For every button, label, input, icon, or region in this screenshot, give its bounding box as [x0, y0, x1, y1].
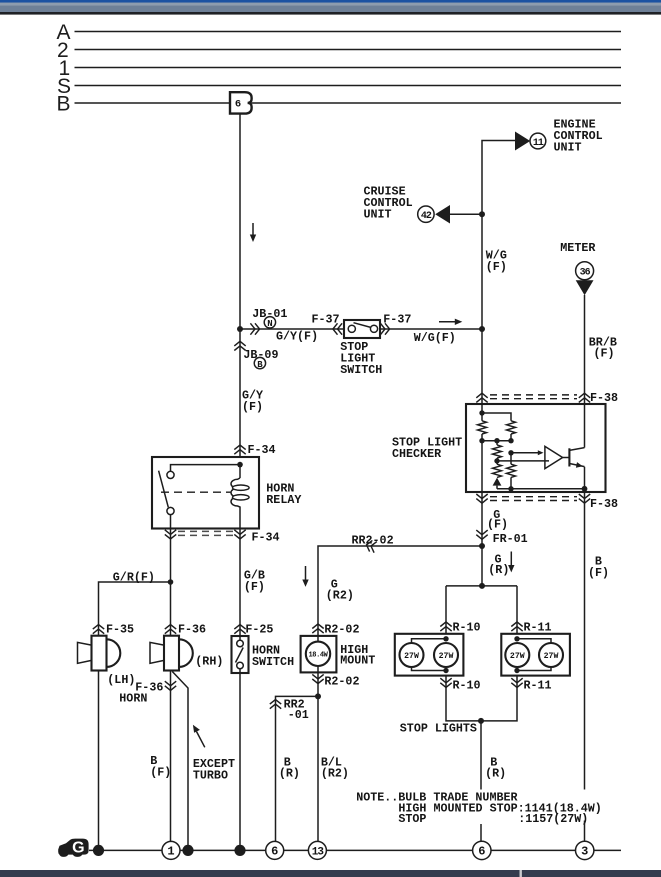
bus line 2 [75, 49, 622, 51]
ground pin circle 3 [576, 841, 594, 859]
wire stop light bottom rail [446, 676, 517, 721]
svg-text:G/R(F): G/R(F) [113, 570, 155, 584]
connector dashed pair F-38 upper [490, 395, 577, 399]
node RR2-01 junction [315, 693, 321, 699]
connector dashed pair F-34 [178, 531, 233, 535]
wire except-turbo branch diagonal [172, 672, 188, 851]
label G/R(F) [113, 570, 155, 584]
label R-10 upper [453, 621, 481, 635]
label G (F) [487, 508, 508, 532]
wire high mount ground [317, 672, 319, 842]
label W/G (F) [486, 249, 507, 275]
wire B F tail to circle 3 [584, 821, 586, 842]
connector chevron R-10 upper [440, 622, 451, 631]
label B (F) left [150, 754, 171, 780]
svg-text:(R2): (R2) [321, 766, 349, 780]
label G/B (F) [244, 569, 265, 595]
svg-text:B: B [257, 360, 263, 370]
bus line A [75, 31, 622, 33]
connector chevron F-37 right [380, 323, 389, 334]
ground pin circle 13 [308, 841, 326, 859]
svg-text:N: N [267, 319, 272, 329]
label JB-01 [252, 307, 287, 321]
horn RH [150, 636, 193, 671]
wire checker feed vertical [481, 329, 483, 404]
svg-text:HORN: HORN [119, 692, 147, 706]
svg-text:F-34: F-34 [248, 443, 276, 457]
label F-37 left [312, 313, 340, 327]
svg-text:(F): (F) [487, 517, 508, 531]
connector chevron R2-02 upper [312, 624, 323, 633]
flow arrow down on main wire [250, 223, 256, 242]
wire LH horn ground [98, 671, 100, 851]
connector chevron F-38 lower left [476, 494, 487, 503]
label BR/B (F) [589, 336, 617, 361]
node bottom rail right [582, 486, 588, 492]
label F-34 upper [248, 443, 276, 457]
wire RR2-01 branch [276, 696, 319, 842]
engine control unit arrow [515, 132, 530, 151]
node stop light ground [478, 718, 484, 724]
svg-text:27W: 27W [544, 652, 559, 661]
connector chevron R2-02 lower [312, 674, 323, 683]
stop light switch S1 [344, 320, 380, 338]
label CRUISE CONTROL UNIT [364, 185, 413, 222]
wire main vertical from box 6 [239, 114, 241, 457]
label HORN SWITCH [252, 644, 294, 670]
bus label 2 [57, 39, 69, 62]
svg-text:F-25: F-25 [245, 623, 273, 637]
wire horn switch ground [239, 673, 241, 850]
connector chevron F-25 [234, 625, 245, 634]
wire meter into collector [584, 404, 586, 448]
svg-text:F-37: F-37 [312, 313, 340, 327]
bottom banner bar [0, 870, 661, 877]
svg-text:(RH): (RH) [195, 655, 223, 669]
label HIGH MOUNT [340, 643, 375, 668]
wire stop light top rail [446, 585, 517, 587]
label G/Y(F) [276, 330, 318, 344]
comparator input line lower [497, 460, 549, 462]
label STOP LIGHT CHECKER [392, 436, 462, 462]
label F-38 lower [590, 497, 618, 511]
wire meter vertical BR/B [584, 295, 586, 404]
wire switch to W/G node [380, 328, 482, 330]
ground rail [89, 849, 621, 851]
cruise control unit arrow [435, 205, 450, 224]
svg-text:(R2): (R2) [326, 589, 354, 603]
label (RH) [195, 655, 223, 669]
svg-text:(F): (F) [242, 400, 263, 414]
bus line B left segment [75, 102, 231, 104]
node mid rail right [508, 438, 513, 443]
svg-text:STOP LIGHTS: STOP LIGHTS [400, 722, 477, 736]
connector chevron F-37 left [333, 323, 342, 334]
svg-text:F-35: F-35 [106, 623, 134, 637]
svg-text:27W: 27W [404, 652, 419, 661]
svg-text:(F): (F) [588, 566, 609, 580]
bulb 27W left-left [400, 643, 424, 667]
node relay coil top [237, 462, 243, 468]
svg-text:(R): (R) [488, 563, 509, 577]
label G/Y (F) [242, 388, 263, 414]
svg-text:(R): (R) [279, 766, 300, 780]
connector chevron R-10 lower [440, 678, 451, 687]
node stop light split [479, 583, 485, 589]
svg-text:SWITCH: SWITCH [340, 363, 382, 377]
connector chevron F-36 rh top [165, 625, 176, 634]
svg-text:R-10: R-10 [453, 678, 481, 692]
connector circle B [254, 357, 265, 369]
connector chevron F-38 upper left [476, 393, 487, 402]
bulb 27W left-right [434, 643, 458, 667]
label (LH) [107, 673, 135, 687]
svg-text:F-34: F-34 [252, 530, 280, 544]
flow arrow right [439, 319, 462, 325]
svg-text:(F): (F) [594, 347, 615, 361]
horn relay internal top wire [171, 465, 241, 472]
connector chevron F-34 lower right [234, 530, 245, 539]
svg-text:F-37: F-37 [383, 313, 411, 327]
node mid rail left [479, 438, 484, 443]
svg-text:F-38: F-38 [590, 391, 618, 405]
svg-text:F-36: F-36 [178, 623, 206, 637]
connector chevron F-38 upper right [579, 393, 590, 402]
svg-text:UNIT: UNIT [364, 208, 392, 222]
node G/R junction [168, 579, 174, 585]
label F-37 right [383, 313, 411, 327]
connector chevron F-34 lower left [165, 530, 176, 539]
resistor R-a [478, 421, 487, 434]
label B/L (R2) [321, 755, 349, 780]
connector chevron JB-01 [250, 323, 259, 334]
svg-text:R-10: R-10 [453, 621, 481, 635]
checker bottom rail [497, 488, 585, 490]
bus line S [75, 85, 622, 87]
svg-text:3: 3 [581, 845, 588, 859]
label EXCEPT TURBO [193, 757, 235, 783]
note text background [354, 790, 608, 825]
bus line B right segment [252, 102, 621, 104]
connector chevron F-38 lower right [579, 494, 590, 503]
svg-text:13: 13 [312, 847, 325, 859]
svg-text:42: 42 [421, 211, 432, 222]
wire W/G vertical (engine control feed) [482, 141, 515, 330]
comparator input line upper with arrow [511, 450, 544, 455]
svg-text:R-11: R-11 [524, 621, 552, 635]
node W/G junction [479, 326, 485, 332]
meter arrow down [576, 280, 594, 295]
svg-text:RELAY: RELAY [266, 493, 301, 507]
node ground LH horn [93, 845, 104, 856]
svg-text:1: 1 [167, 845, 174, 859]
label G (R) [488, 553, 509, 578]
label F-38 upper [590, 391, 618, 405]
node ground except turbo [182, 845, 193, 856]
connector chevron F-34 upper [234, 445, 245, 454]
wire relay switch output [170, 515, 172, 636]
label F-35 [106, 623, 134, 637]
svg-text:G/Y(F): G/Y(F) [276, 330, 318, 344]
horn relay linkage dashed [161, 491, 231, 493]
svg-text:(LH): (LH) [107, 673, 135, 687]
svg-text:6: 6 [235, 99, 241, 111]
stop light right box [501, 634, 570, 676]
connector chevron RR2-01 [270, 700, 281, 709]
checker left wire lower [481, 441, 483, 492]
connector circle N [264, 317, 275, 329]
svg-text:F-38: F-38 [590, 497, 618, 511]
wire right lamp branch [516, 586, 518, 634]
label RR2 -01 [284, 698, 309, 723]
node checker top [479, 410, 484, 415]
checker top rail [482, 413, 511, 421]
svg-text:18.4W: 18.4W [308, 651, 328, 659]
transistor Q1 [569, 448, 584, 468]
flow arrow down left of G R2 [302, 566, 308, 587]
label R2-02 upper [324, 623, 359, 637]
svg-text:(R): (R) [485, 766, 506, 780]
bulb 27W right-right [539, 643, 563, 667]
wire stop light ground drop [480, 721, 482, 842]
resistor R-e [507, 453, 516, 489]
svg-text:(F): (F) [244, 580, 265, 594]
svg-text:METER: METER [560, 241, 595, 255]
label F-36 lower [135, 680, 163, 694]
flow arrow down right of G R [508, 552, 514, 573]
checker mid rail [482, 434, 511, 441]
label B (R) center [485, 755, 506, 780]
connector chevron R-11 lower [511, 678, 522, 687]
wire coil output G/B [239, 529, 241, 637]
svg-text::1157(27W): :1157(27W) [518, 812, 588, 826]
label HORN RELAY [266, 482, 301, 508]
svg-text:(F): (F) [486, 260, 507, 274]
stop light left box [395, 634, 464, 676]
svg-text:27W: 27W [510, 652, 525, 661]
svg-text:STOP: STOP [398, 812, 426, 826]
wire RR2-02 branch horizontal [318, 546, 482, 636]
svg-text:R2-02: R2-02 [324, 623, 359, 637]
horn relay coil [231, 465, 249, 529]
note BULB TRADE NUMBER [356, 791, 602, 826]
label F-34 lower [252, 530, 280, 544]
horn LH [78, 636, 121, 671]
wire cruise control branch [450, 213, 482, 215]
svg-text:27W: 27W [439, 652, 454, 661]
label RR2-02 [352, 533, 394, 547]
label STOP LIGHT SWITCH [340, 340, 382, 377]
node bottom rail center [508, 486, 513, 491]
svg-text:-01: -01 [288, 708, 309, 722]
node mid rail center [494, 438, 499, 443]
wire checker outputs [482, 489, 585, 797]
resistor R-c [493, 441, 502, 461]
svg-text:R2-02: R2-02 [324, 674, 359, 688]
cruise control unit pin circle 42 [418, 206, 434, 222]
connector chevron F-36 lower [165, 681, 176, 690]
label F-36 top [178, 623, 206, 637]
stop light checker box U2 [466, 404, 606, 492]
node divider tap [494, 458, 499, 463]
label R-11 upper [524, 621, 552, 635]
bus label B [57, 93, 71, 116]
horn relay box [152, 457, 259, 529]
connector dashed pair F-38 lower [490, 497, 577, 501]
svg-text:36: 36 [580, 268, 591, 279]
engine control unit pin circle 11 [530, 133, 546, 149]
connector chevron FR-01 [476, 530, 487, 539]
label JB-09 [243, 348, 278, 362]
bus line 1 [75, 67, 622, 69]
checker left wire upper [481, 404, 483, 421]
svg-text:11: 11 [533, 138, 544, 149]
svg-text:CHECKER: CHECKER [392, 447, 441, 461]
bus label 1 [59, 57, 71, 80]
resistor R-d [493, 461, 502, 478]
svg-text:G: G [72, 840, 84, 857]
wire left lamp branch [445, 586, 447, 634]
label B (F) right [588, 555, 609, 581]
label METER [560, 241, 595, 255]
ground pin circle 6 right [473, 841, 491, 859]
svg-text:6: 6 [271, 845, 278, 859]
label G (R2) [326, 578, 354, 603]
node cruise junction [479, 211, 485, 217]
node ground horn switch [234, 845, 245, 856]
svg-text:MOUNT: MOUNT [340, 653, 375, 667]
svg-text:FR-01: FR-01 [493, 532, 528, 546]
svg-text:(F): (F) [150, 765, 171, 779]
ground pin circle 1 [162, 841, 180, 859]
svg-text:SWITCH: SWITCH [252, 655, 294, 669]
node resistor right branch [508, 450, 513, 455]
resistor R-b [507, 421, 516, 434]
connector box 6 on bus B [230, 92, 252, 113]
horn relay switch contacts [159, 471, 174, 515]
connector chevron F-35 [93, 625, 104, 634]
connector chevron RR2-02 [365, 539, 377, 552]
wire G/R branch horizontal [99, 582, 171, 636]
label B (R) left [279, 755, 300, 780]
wire checker to stop lights [481, 546, 483, 586]
bus label S [57, 75, 71, 98]
high mount lamp L1 [301, 636, 337, 673]
except turbo arrow [193, 725, 205, 748]
node JB-01 junction on main wire [237, 326, 243, 332]
bulb 27W right-left [505, 643, 529, 667]
label W/G(F) [414, 331, 456, 345]
svg-text:R-11: R-11 [524, 678, 552, 692]
label STOP LIGHTS [400, 722, 477, 736]
wire RH horn ground [170, 671, 172, 843]
ground pin circle 6 left [266, 841, 284, 859]
ground symbol G [58, 839, 88, 857]
svg-text:TURBO: TURBO [193, 768, 228, 782]
diode D1 [493, 478, 502, 489]
label F-25 [245, 623, 273, 637]
svg-text:6: 6 [478, 845, 485, 859]
label R2-02 lower [324, 674, 359, 688]
wire emitter to bottom rail [584, 467, 586, 489]
svg-text:B: B [57, 93, 71, 116]
label R-11 lower [524, 678, 552, 692]
node FR-01 junction [479, 543, 485, 549]
comparator U2a [545, 446, 570, 468]
connector chevron JB-09 [234, 341, 245, 350]
svg-text:W/G(F): W/G(F) [414, 331, 456, 345]
label ENGINE CONTROL UNIT [554, 118, 603, 155]
svg-text:UNIT: UNIT [554, 141, 582, 155]
bus label A [57, 21, 71, 44]
top banner bar [0, 0, 661, 15]
horn switch S2 [232, 636, 249, 673]
connector chevron R-11 upper [511, 622, 522, 631]
wire stop light switch feed G/Y [240, 328, 344, 330]
meter pin circle 36 [576, 262, 594, 280]
label HORN [119, 692, 147, 706]
label R-10 lower [453, 678, 481, 692]
label FR-01 [493, 532, 528, 546]
